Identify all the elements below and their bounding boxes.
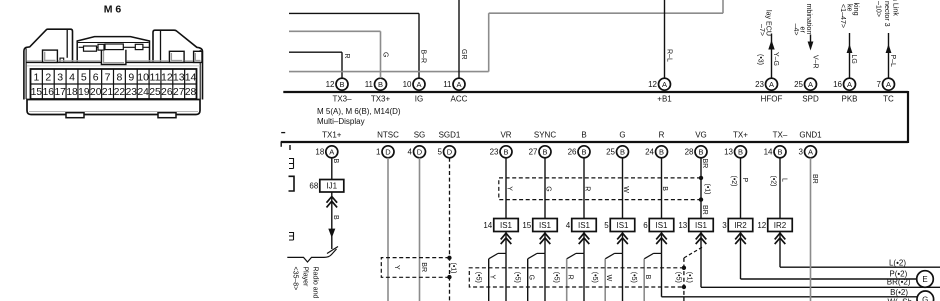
svg-text:A: A <box>662 80 667 89</box>
label (*1) on shield box <box>704 184 711 195</box>
svg-text:11: 11 <box>150 71 161 83</box>
svg-text:(•5): (•5) <box>475 272 482 283</box>
svg-text:12: 12 <box>757 221 766 230</box>
svg-text:B: B <box>581 148 586 157</box>
svg-text:A: A <box>329 148 334 157</box>
svg-text:–4>: –4> <box>792 24 800 36</box>
wire L(*2) to right edge <box>780 232 940 268</box>
svg-text:B: B <box>644 275 651 280</box>
svg-text:L: L <box>780 178 787 182</box>
IS1 13 chevrons <box>696 233 707 244</box>
svg-text:18: 18 <box>66 87 78 98</box>
svg-text:14: 14 <box>185 71 197 83</box>
svg-text:IS1: IS1 <box>578 221 591 230</box>
svg-text:SPD: SPD <box>802 94 819 103</box>
junction connector IS1 pin 13 <box>678 219 713 232</box>
svg-text:M 6: M 6 <box>104 4 122 16</box>
wire G below IS1 with break <box>528 232 545 301</box>
svg-text:W: W <box>605 275 612 282</box>
svg-text:M 5(A), M 6(B), M14(D): M 5(A), M 6(B), M14(D) <box>317 107 401 116</box>
svg-text:5: 5 <box>81 71 87 83</box>
svg-text:TX3–: TX3– <box>332 94 352 103</box>
svg-text:17: 17 <box>54 87 66 98</box>
svg-text:15: 15 <box>31 87 43 98</box>
svg-text:D: D <box>417 148 423 157</box>
svg-text:10: 10 <box>403 80 412 89</box>
wire GR to ACC <box>459 0 467 78</box>
svg-text:+B1: +B1 <box>657 94 672 103</box>
wire Y below IS1 with break <box>489 232 506 301</box>
label (*5) and B bottom <box>630 272 651 283</box>
svg-text:TC: TC <box>883 94 894 103</box>
brace Radio and Player <box>287 249 336 262</box>
connector M6 housing outline <box>24 29 203 99</box>
svg-text:P: P <box>741 178 748 183</box>
svg-text:B: B <box>659 148 664 157</box>
wire BR(*2) below IS1 13 to right edge <box>701 232 940 288</box>
junction connector IS1 pin 4 <box>566 219 596 232</box>
svg-text:25: 25 <box>149 87 161 98</box>
svg-text:A: A <box>886 80 891 89</box>
svg-text:11: 11 <box>365 80 374 89</box>
svg-text:V–R: V–R <box>812 55 819 69</box>
label BR (SG) <box>420 262 427 272</box>
svg-text:R: R <box>567 275 574 280</box>
svg-text:B: B <box>339 80 344 89</box>
svg-text:Y: Y <box>506 186 513 191</box>
pin 25(A) SPD <box>794 78 819 103</box>
svg-text:(•5): (•5) <box>514 272 521 283</box>
pin 3(A) GND1 <box>799 130 823 158</box>
junction connector IS1 pin 6 <box>643 219 673 232</box>
connector M6 center lock roof <box>77 37 149 63</box>
svg-text:B: B <box>661 186 668 191</box>
label (*5) and W bottom <box>591 272 612 283</box>
svg-text:Radio and: Radio and <box>312 267 319 299</box>
svg-text:HFOF: HFOF <box>761 94 783 103</box>
wire G to TX3+ <box>289 31 389 78</box>
svg-text:23: 23 <box>490 148 499 157</box>
svg-text:21: 21 <box>102 87 114 98</box>
svg-text:TX1+: TX1+ <box>322 130 342 139</box>
label (*5) and R bottom <box>553 272 574 283</box>
svg-text:16: 16 <box>43 87 55 98</box>
svg-text:15: 15 <box>522 221 531 230</box>
svg-text:PKB: PKB <box>841 94 857 103</box>
svg-text:R: R <box>659 130 665 139</box>
svg-text:LG: LG <box>850 55 857 64</box>
svg-text:B(•2): B(•2) <box>890 288 908 297</box>
svg-text:–7>: –7> <box>758 24 766 36</box>
wire BR from VG <box>701 158 708 219</box>
connector circle E <box>917 271 934 288</box>
svg-text:A: A <box>847 80 852 89</box>
svg-text:23: 23 <box>126 87 138 98</box>
svg-text:3: 3 <box>722 221 727 230</box>
svg-text:B: B <box>503 148 508 157</box>
svg-text:68: 68 <box>309 182 318 191</box>
wire B below IJ1 with down arrow <box>328 192 339 249</box>
svg-text:6: 6 <box>93 71 99 83</box>
svg-text:VR: VR <box>500 130 511 139</box>
wire break to Radio and Player <box>327 247 338 254</box>
IS1 chevrons <box>540 233 551 244</box>
label Y (NTSC) <box>393 265 400 270</box>
svg-text:2: 2 <box>45 71 51 83</box>
svg-text:A: A <box>808 148 813 157</box>
svg-text:14: 14 <box>764 148 773 157</box>
svg-text:(•5): (•5) <box>591 272 598 283</box>
wire LG from PKB with up arrow <box>847 33 857 78</box>
Multi-Display ECU box <box>281 91 908 147</box>
svg-text:P–L: P–L <box>889 55 896 68</box>
svg-text:IG: IG <box>415 94 423 103</box>
IS1 chevrons <box>617 233 628 244</box>
svg-text:Multi–Display: Multi–Display <box>317 117 365 126</box>
junction connector IR2 pin 12 <box>757 219 792 232</box>
svg-text:B: B <box>738 148 743 157</box>
svg-text:(•5): (•5) <box>630 272 637 283</box>
wire B(*2) to G circle <box>662 253 918 297</box>
svg-text:BR: BR <box>420 262 427 272</box>
svg-text:1: 1 <box>34 71 40 83</box>
wire BR from SG <box>419 158 421 301</box>
wire B-R to IG <box>289 13 427 78</box>
pin 12(A) +B1 <box>648 78 672 103</box>
shield box NTSC/SG (*1) <box>381 256 451 280</box>
destination Parking Brake <box>839 3 860 29</box>
pin 1(D) NTSC <box>376 130 399 158</box>
svg-text:(•2): (•2) <box>769 176 776 187</box>
svg-text:4: 4 <box>566 221 571 230</box>
svg-text:Y: Y <box>393 265 400 270</box>
label (*5) and G bottom <box>514 272 535 283</box>
svg-text:9: 9 <box>128 71 134 83</box>
svg-text:TX3+: TX3+ <box>371 94 391 103</box>
wire B column <box>661 158 668 219</box>
svg-text:D: D <box>385 148 391 157</box>
svg-text:(•5): (•5) <box>675 272 682 283</box>
pin 14(B) TX&#8211; <box>764 130 788 158</box>
wire B below IS1 with break <box>644 232 661 301</box>
pin 28(B) VG <box>685 130 707 158</box>
svg-text:R: R <box>584 186 591 191</box>
svg-text:A: A <box>456 80 461 89</box>
wire P(*2) to E circle <box>741 232 917 280</box>
pin 18(A) TX1+ <box>315 130 341 158</box>
pin 16(A) PKB <box>833 78 857 103</box>
cut fragment bracket <box>289 176 295 191</box>
svg-text:7: 7 <box>877 80 882 89</box>
svg-text:D: D <box>447 148 453 157</box>
wire Y-G from HFOF with up arrow <box>757 34 780 79</box>
svg-text:(•3): (•3) <box>757 54 764 65</box>
wire R to TX3- <box>289 52 350 78</box>
pin 23(B) VR <box>490 130 512 158</box>
svg-text:<35–8>: <35–8> <box>292 267 299 291</box>
wire P-L from TC with up arrow <box>886 33 896 78</box>
svg-text:5: 5 <box>438 148 443 157</box>
junction connector IS1 pin 14 <box>483 219 518 232</box>
svg-text:P(•2): P(•2) <box>889 269 907 278</box>
svg-text:SYNC: SYNC <box>534 130 556 139</box>
pin 4(D) SG <box>408 130 426 158</box>
svg-text:B: B <box>332 215 339 220</box>
svg-text:NTSC: NTSC <box>377 130 399 139</box>
svg-text:6: 6 <box>643 221 648 230</box>
svg-text:GR: GR <box>460 49 467 60</box>
svg-text:IR2: IR2 <box>774 221 787 230</box>
connector M6 title <box>104 4 122 16</box>
IJ1 chevrons <box>327 197 338 208</box>
svg-text:24: 24 <box>137 87 149 98</box>
wire gray elbow (unlabeled pass-through) <box>289 0 723 72</box>
svg-text:L(•2): L(•2) <box>889 259 906 268</box>
pin 24(B) R <box>645 130 667 158</box>
svg-text:R–L: R–L <box>666 49 673 62</box>
svg-text:28: 28 <box>685 148 694 157</box>
svg-text:IR2: IR2 <box>734 221 747 230</box>
svg-text:B: B <box>332 159 339 164</box>
svg-text:19: 19 <box>78 87 90 98</box>
svg-text:13: 13 <box>173 71 185 83</box>
svg-text:G: G <box>545 186 552 191</box>
svg-text:11: 11 <box>443 80 452 89</box>
svg-text:14: 14 <box>483 221 492 230</box>
svg-text:IS1: IS1 <box>616 221 629 230</box>
connector M6 base <box>27 100 200 118</box>
svg-text:B: B <box>698 148 703 157</box>
svg-text:B–R: B–R <box>420 50 427 64</box>
svg-text:SGD1: SGD1 <box>439 130 461 139</box>
wire W below IS1 with break <box>605 232 622 301</box>
wire R-L to +B1 <box>665 0 673 78</box>
wire W column <box>622 158 629 219</box>
svg-text:Y: Y <box>489 275 496 280</box>
svg-text:10: 10 <box>137 71 149 83</box>
svg-text:A: A <box>769 80 774 89</box>
pin 7(A) TC <box>877 78 895 103</box>
junction connector IS1 pin 5 <box>604 219 634 232</box>
svg-text:5: 5 <box>604 221 609 230</box>
junction connector IS1 pin 15 <box>522 219 557 232</box>
pin 23(A) HFOF <box>755 78 782 103</box>
IS1 chevrons <box>501 233 512 244</box>
svg-text:13: 13 <box>724 148 733 157</box>
svg-text:26: 26 <box>161 87 173 98</box>
wire G column <box>545 158 552 219</box>
svg-text:20: 20 <box>90 87 102 98</box>
svg-text:GND1: GND1 <box>799 130 822 139</box>
junction connector IR2 pin 3 <box>722 219 752 232</box>
svg-text:7: 7 <box>105 71 111 83</box>
pin 12(B) TX3&#8211; <box>326 78 353 103</box>
wire Y from NTSC <box>387 158 389 301</box>
svg-text:(•5): (•5) <box>553 272 560 283</box>
pin 5(D) SGD1 <box>438 130 461 158</box>
svg-text:4: 4 <box>408 148 413 157</box>
svg-text:18: 18 <box>315 148 324 157</box>
wire V-R to SPD with down arrow <box>808 35 819 69</box>
svg-text:A: A <box>416 80 421 89</box>
svg-text:R: R <box>343 54 350 59</box>
svg-text:Y–G: Y–G <box>772 52 779 66</box>
svg-text:VG: VG <box>695 130 707 139</box>
shield box (*5) bottom <box>469 266 686 290</box>
IS1 chevrons <box>579 233 590 244</box>
svg-text:IS1: IS1 <box>539 221 552 230</box>
svg-text:(•1): (•1) <box>704 184 711 195</box>
connector M6 pin grid <box>31 69 197 99</box>
svg-text:B: B <box>777 148 782 157</box>
svg-text:27: 27 <box>529 148 538 157</box>
svg-text:Player: Player <box>302 267 309 288</box>
pin 13(B) TX+ <box>724 130 748 158</box>
svg-text:IS1: IS1 <box>655 221 668 230</box>
svg-text:3: 3 <box>57 71 63 83</box>
IR2 12 chevrons <box>775 233 786 244</box>
wire P from TX+ <box>730 158 748 219</box>
wire B from TX1+ <box>332 158 339 180</box>
svg-text:23: 23 <box>755 80 764 89</box>
svg-text:–10>: –10> <box>875 1 883 17</box>
svg-text:22: 22 <box>114 87 126 98</box>
svg-text:BR: BR <box>701 205 708 215</box>
cut fragment E-shape <box>289 158 294 169</box>
svg-text:8: 8 <box>117 71 123 83</box>
pin 25(B) G <box>606 130 628 158</box>
IS1 chevrons <box>656 233 667 244</box>
cut fragment E-shape 2 <box>289 232 294 240</box>
svg-text:A: A <box>808 80 813 89</box>
svg-text:B: B <box>620 148 625 157</box>
svg-text:a Link: a Link <box>892 0 900 16</box>
wire R below IS1 with break <box>567 232 584 301</box>
svg-text:IJ1: IJ1 <box>326 182 337 191</box>
svg-text:26: 26 <box>568 148 577 157</box>
svg-text:3: 3 <box>799 148 804 157</box>
wire BR from GND1 (ground) <box>811 158 818 301</box>
labels (*5) (*1) drain <box>675 272 693 283</box>
svg-text:TX–: TX– <box>773 130 788 139</box>
svg-text:25: 25 <box>794 80 803 89</box>
destination Combination Meter <box>792 4 813 36</box>
svg-text:12: 12 <box>648 80 657 89</box>
connector circle G <box>917 291 934 301</box>
svg-text:G: G <box>619 130 625 139</box>
wire Y column <box>506 158 513 219</box>
svg-text:BR: BR <box>811 174 818 184</box>
label (*1) SGD1 <box>449 263 456 274</box>
svg-text:(•2): (•2) <box>730 176 737 187</box>
svg-text:IS1: IS1 <box>695 221 708 230</box>
svg-text:G: G <box>382 52 389 57</box>
destination Radio and Player <35-8> <box>292 267 319 299</box>
pin 10(A) IG <box>403 78 425 103</box>
svg-text:1: 1 <box>376 148 381 157</box>
svg-text:(•1): (•1) <box>449 263 456 274</box>
svg-text:TX+: TX+ <box>733 130 748 139</box>
svg-text:W: W <box>622 186 629 193</box>
connector M6 latch strip <box>26 50 202 66</box>
svg-text:IS1: IS1 <box>500 221 513 230</box>
junction connector IJ1 pin 68 <box>309 180 343 193</box>
svg-text:ACC: ACC <box>451 94 468 103</box>
svg-text:E: E <box>922 275 927 284</box>
svg-text:(•1): (•1) <box>686 272 693 283</box>
svg-text:24: 24 <box>645 148 654 157</box>
pin 11(A) ACC <box>443 78 467 103</box>
pin 27(B) SYNC <box>529 130 557 158</box>
svg-text:G: G <box>528 275 535 280</box>
svg-text:16: 16 <box>833 80 842 89</box>
svg-text:W(–Sh: W(–Sh <box>888 298 912 301</box>
wire R column <box>584 158 591 219</box>
svg-text:27: 27 <box>173 87 185 98</box>
destination Display ECU <box>758 10 773 36</box>
svg-text:4: 4 <box>69 71 75 83</box>
pin 11(B) TX3+ <box>365 78 391 103</box>
svg-text:B: B <box>581 130 586 139</box>
svg-text:12: 12 <box>326 80 335 89</box>
cut fragment dash <box>281 132 285 134</box>
pin 26(B) B <box>568 130 590 158</box>
shield box video lines (*1) <box>499 176 703 202</box>
shield wire SGD1 <box>449 158 451 301</box>
svg-text:BR: BR <box>701 159 708 169</box>
connector M6 pin numbers 1-28 <box>31 71 197 98</box>
label (*5) and Y bottom <box>475 272 496 283</box>
svg-text:25: 25 <box>606 148 615 157</box>
svg-text:12: 12 <box>161 71 173 83</box>
shield drain dashed break <box>684 247 702 301</box>
cut fragment tick <box>289 145 291 150</box>
Multi-Display label <box>317 107 401 126</box>
svg-text:B: B <box>378 80 383 89</box>
svg-text:B: B <box>542 148 547 157</box>
svg-text:<1–47>: <1–47> <box>839 4 847 28</box>
destination Data Link Connector 3 <box>875 0 900 27</box>
svg-text:13: 13 <box>678 221 687 230</box>
svg-text:28: 28 <box>185 87 197 98</box>
svg-text:nector 3: nector 3 <box>883 1 891 27</box>
svg-text:SG: SG <box>414 130 426 139</box>
wire L from TX- <box>769 158 787 219</box>
label W(-Sh cut at bottom <box>888 298 912 301</box>
IR2 3 chevrons <box>735 233 746 244</box>
svg-text:G: G <box>922 295 928 301</box>
